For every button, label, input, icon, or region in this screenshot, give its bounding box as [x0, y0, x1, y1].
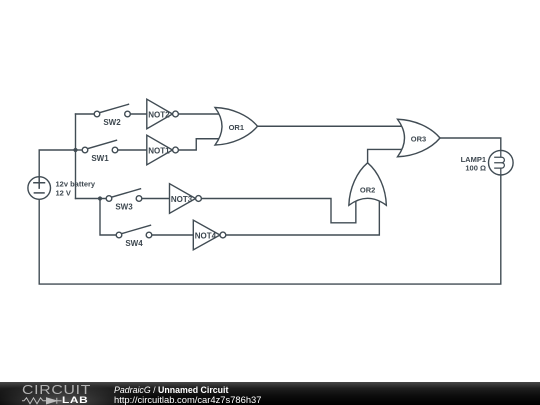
svg-text:12 V: 12 V: [56, 189, 71, 198]
svg-text:SW2: SW2: [103, 118, 121, 127]
battery plus sign: [34, 178, 45, 189]
svg-text:NOT2: NOT2: [148, 110, 170, 119]
wire OR3 output to lamp: [440, 138, 501, 151]
junction dot at bus/SW1: [73, 148, 77, 152]
lamp LAMP1 circle: [489, 150, 514, 175]
svg-text:OR2: OR2: [360, 185, 375, 194]
switch SW2 lever: [99, 104, 128, 112]
svg-text:NOT4: NOT4: [195, 231, 217, 240]
svg-text:OR1: OR1: [229, 123, 244, 132]
wire NOT4 to OR2 right input: [226, 199, 380, 235]
battery minus sign: [34, 192, 44, 194]
svg-text:SW4: SW4: [125, 239, 143, 248]
wire SW4 drop and row: [100, 199, 119, 236]
switch SW3 lever: [111, 189, 140, 197]
wire battery top to bus: [39, 150, 75, 177]
wire NOT3 to OR2 left input: [201, 199, 355, 223]
svg-text:SW3: SW3: [115, 203, 133, 212]
NOT1 bubble: [173, 147, 179, 153]
switch SW3 terminals: [106, 196, 112, 202]
footer bar: [0, 382, 540, 405]
NOT gate NOT3 triangle: [170, 184, 196, 214]
battery V1 circle: [28, 177, 51, 200]
switch SW4 lever: [121, 225, 150, 233]
svg-text:NOT3: NOT3: [171, 195, 193, 204]
wire SW1 to NOT1: [118, 149, 147, 151]
junction dot at SW3/SW4 branch: [98, 196, 102, 200]
wire OR2 output to OR3 bottom input: [368, 149, 403, 162]
NOT gate NOT1 triangle: [147, 135, 173, 165]
OR gate OR2 (rotated, points up): [349, 163, 387, 206]
wire SW3 to NOT3: [142, 198, 170, 200]
wire SW4 to NOT4: [152, 234, 194, 236]
wire lamp bottom, bottom rail, battery return: [39, 174, 501, 284]
svg-text:OR3: OR3: [411, 134, 426, 143]
switch SW2 terminals: [94, 111, 100, 117]
wire OR1 output to OR3 top input: [258, 125, 404, 127]
NOT4 bubble: [220, 232, 226, 238]
svg-text:12v battery: 12v battery: [56, 180, 96, 189]
wire bus to SW2: [76, 113, 98, 115]
wire NOT2 to OR1 top input: [178, 113, 221, 115]
lamp filament coil: [495, 151, 505, 175]
svg-text:100 Ω: 100 Ω: [465, 164, 486, 173]
wire SW2 to NOT2: [130, 113, 147, 115]
CircuitLab logo: [22, 384, 91, 397]
NOT3 bubble: [196, 196, 202, 202]
wire SW3 row from bus: [76, 198, 110, 200]
wire bus to SW1: [76, 149, 86, 151]
OR gate OR3: [398, 119, 441, 157]
svg-text:NOT1: NOT1: [148, 146, 170, 155]
NOT gate NOT4 triangle: [193, 220, 220, 250]
OR gate OR1: [215, 108, 258, 146]
wire NOT1 to OR1 bottom input: [178, 139, 221, 150]
switch SW1 terminals: [82, 147, 88, 153]
NOT gate NOT2 triangle: [147, 99, 173, 129]
switch SW1 lever: [87, 140, 116, 148]
wire left vertical bus: [75, 114, 77, 199]
switch SW4 terminals: [116, 232, 122, 238]
NOT2 bubble: [173, 111, 179, 117]
svg-text:SW1: SW1: [91, 154, 109, 163]
logo squiggle: resistor + diode: [22, 397, 67, 405]
